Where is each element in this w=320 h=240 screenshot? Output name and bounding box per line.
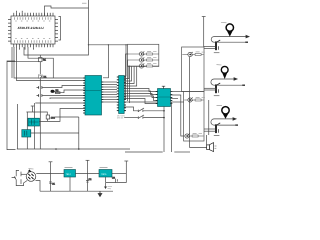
- AC connector shape: [12, 170, 21, 185]
- relay pin link wires: [204, 46, 217, 131]
- U4 top pin stub: [162, 86, 165, 88]
- right rail from T-flag top: [202, 17, 206, 48]
- fan wires U3 to U4: [124, 89, 157, 104]
- opto row 2: [0, 0, 1, 1]
- wire y61 to rail: [7, 61, 40, 63]
- svg-text:7812: 7812: [66, 173, 72, 176]
- junction dot SW1: [163, 110, 165, 112]
- left module input wires curving down: [126, 54, 130, 103]
- switch SW1: [138, 108, 164, 112]
- wire vertical x108.4 to U2 pin: [103, 45, 108, 78]
- wires connector to bridge: [19, 174, 27, 185]
- bottom rail y148.2: [17, 148, 130, 150]
- power flag T x126.3: [124, 161, 128, 183]
- fan wires box bottom to U3: [124, 66, 137, 86]
- opto row 3: [139, 64, 143, 68]
- wire vertical right of U1: [24, 0, 89, 55]
- U3 label text: [117, 114, 126, 119]
- bridge circle: [26, 169, 36, 182]
- wire y99: [50, 98, 86, 99]
- teal crystal box A: [28, 118, 40, 126]
- wire from U1 top pins to top rail: [45, 6, 89, 16]
- diode on lower wire: [104, 183, 112, 189]
- diode D on rail x40: [39, 75, 47, 85]
- bottom rail y151.3 right: [174, 151, 190, 153]
- cap C2 vertical x87.5: [86, 160, 92, 191]
- speaker symbol: [207, 143, 217, 152]
- module box ULN (left): [128, 44, 159, 66]
- vertical x171.5 from U4 right wire: [171, 102, 173, 152]
- VR1 ground pin: [69, 177, 71, 191]
- opto row 1: [139, 52, 143, 56]
- big teal IC U2: [85, 76, 102, 116]
- U2 right pins: [102, 82, 104, 102]
- resistor R on rail x40: [39, 55, 47, 75]
- wire VR2 out: [112, 173, 126, 175]
- lamp 2: [217, 105, 230, 118]
- wire cluster to IC y91: [55, 90, 87, 93]
- wire VR1 to VR2: [76, 173, 100, 175]
- svg-text:7805: 7805: [101, 173, 107, 176]
- relay 3 contact hook: [211, 118, 238, 136]
- wire y182: [106, 182, 127, 184]
- bottom rail y151.3 left: [125, 151, 163, 153]
- wire mid horizontal y44.8: [89, 44, 128, 46]
- lower-left verticals to rail: [18, 103, 41, 149]
- VR2 label: [100, 167, 108, 169]
- driver box1: [182, 47, 204, 92]
- transistor row C: [0, 0, 1, 1]
- U1 pin numbers top row: [15, 17, 51, 21]
- wire speaker left: [190, 147, 207, 149]
- wire box2 to speaker: [206, 135, 208, 145]
- U1 bottom pins: [14, 44, 53, 50]
- U3 right pins: [124, 77, 126, 111]
- U4 left pins: [156, 92, 158, 104]
- regulator VR1: [64, 170, 76, 178]
- VR2 ground pin: [105, 177, 107, 182]
- bottom rail power: [40, 190, 113, 192]
- U4 bottom wire: [163, 107, 165, 153]
- U1 pin numbers bottom row: [15, 39, 51, 43]
- U1 right pin bracket: [59, 17, 61, 41]
- button dot component: [51, 90, 55, 93]
- U1 left pins: [8, 20, 11, 42]
- opto row 3: [0, 0, 1, 1]
- wire cluster to IC y95: [42, 95, 86, 97]
- U1 top pins: [14, 11, 53, 16]
- wire cluster bottom y102.5: [35, 102, 86, 104]
- wire x126 down to U3: [124, 45, 126, 76]
- rail x41 through crystal: [39, 84, 41, 104]
- opto/driver rows inside left module box: [128, 51, 205, 138]
- U1 right pins: [55, 20, 58, 42]
- opto row 1: [0, 0, 1, 1]
- wire U1 bottom pin 2 down-right: [17, 47, 86, 81]
- IC U1 ATMEGA328P body: [11, 16, 55, 44]
- svg-text:595-05: 595-05: [117, 116, 124, 119]
- narrow IC U3: [119, 76, 125, 114]
- switch SW2: [138, 115, 164, 119]
- driver Q row 3: [185, 134, 189, 138]
- power flag T x32.5: [31, 106, 34, 112]
- wires U2 to U3: [103, 82, 117, 102]
- relay 1 contact hook: [211, 35, 249, 52]
- opto row 2: [139, 58, 143, 62]
- small teal IC U4: [158, 89, 171, 107]
- crystal X1 ticks upper: [37, 86, 42, 89]
- step wire y112: [26, 112, 47, 115]
- long vertical x208.5: [208, 100, 210, 135]
- junction dot x78.8 rail: [78, 148, 80, 150]
- driver Q row 1: [188, 52, 192, 56]
- wires U2 left lower: [31, 109, 85, 134]
- switch SW1 input corner: [124, 107, 138, 111]
- wire left rail from y61: [7, 61, 16, 150]
- driver Q row 2: [188, 98, 192, 102]
- component D2 small: [46, 115, 55, 120]
- transistor row A: [0, 0, 1, 1]
- wire y117 U2: [55, 116, 79, 118]
- long vertical x189.5: [189, 57, 191, 148]
- junction dot rail: [55, 148, 57, 150]
- relay 2 contact hook: [211, 78, 245, 96]
- cap C3 marks: [112, 176, 117, 182]
- switch SW2 input: [124, 117, 138, 119]
- resistor R2 small: [56, 89, 61, 93]
- teal crystal box B: [22, 130, 31, 137]
- transistor row B: [0, 0, 1, 1]
- driver box2: [184, 92, 204, 142]
- VR1 label: [65, 167, 73, 169]
- wire bridge to reg1: [36, 173, 64, 175]
- lamp 1: [221, 23, 234, 37]
- regulator VR2: [99, 170, 112, 178]
- svg-text:AT28-FF-2128-0-U: AT28-FF-2128-0-U: [18, 26, 45, 30]
- U2 left pins: [83, 78, 85, 113]
- wire bridge bottom: [36, 181, 41, 192]
- power flag T + cap C1 x50.5: [49, 162, 56, 191]
- wire cluster to IC y87: [42, 86, 86, 88]
- wire U1 pin x28 step via x53: [28, 47, 53, 78]
- wire U1 bottom pin 1 down-right: [11, 47, 13, 78]
- U4 right pins: [171, 92, 173, 104]
- junction dot SW2: [163, 117, 165, 119]
- U3 left pins: [117, 77, 119, 111]
- wire U3 to U4 y102: [124, 101, 157, 103]
- load 2 down arrow: [217, 65, 229, 79]
- ground sym bottom: [98, 191, 102, 196]
- vertical x78.8: [78, 117, 80, 149]
- crystal X1 ticks lower: [37, 94, 42, 97]
- U4 right wires to box2: [171, 92, 185, 137]
- junction dots on y44.8 wire: [88, 44, 89, 45]
